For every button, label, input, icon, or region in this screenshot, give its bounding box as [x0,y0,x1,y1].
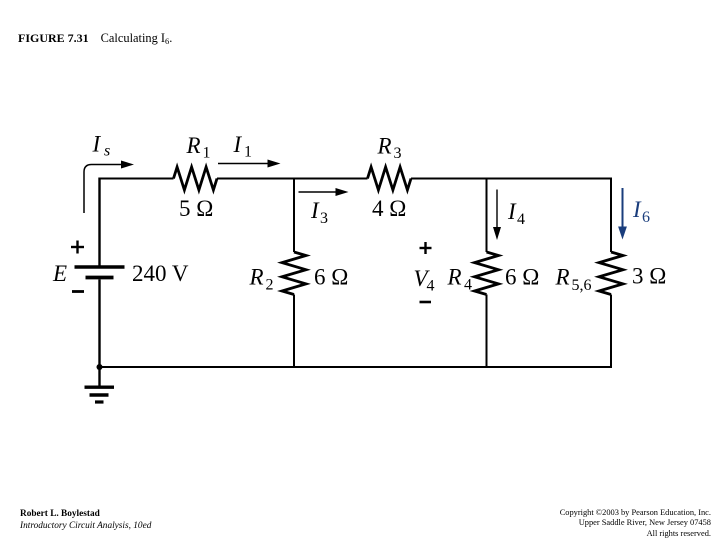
svg-text:6 Ω: 6 Ω [314,265,348,290]
svg-text:6: 6 [642,209,650,226]
footer right [560,508,711,539]
battery minus sign [72,290,84,293]
wire: right vertical top (R5,6 branch) [610,178,612,253]
svg-text:R: R [249,265,264,290]
resistor R5,6 [599,252,623,295]
current arrow I1 [218,163,268,165]
svg-text:4: 4 [517,211,525,228]
svg-text:R: R [555,265,570,290]
current arrow I4 [496,190,498,229]
svg-text:I: I [233,132,243,157]
svg-text:3: 3 [320,210,328,227]
footer left [20,508,151,533]
battery E long plate [75,265,125,269]
svg-text:R: R [377,134,392,159]
wire: right vertical bottom [610,295,612,369]
svg-text:I: I [92,132,102,157]
svg-text:I: I [632,197,642,222]
current arrow I3 [299,191,337,193]
svg-text:4: 4 [464,277,472,294]
wire: R2 branch bottom [293,295,295,369]
resistor R2 [282,252,306,295]
resistor R4 [475,252,499,295]
wire: R4 branch top [486,178,488,253]
current arrow Is [84,165,122,214]
svg-text:R: R [186,133,201,158]
wire: bottom horizontal [100,366,613,368]
svg-text:1: 1 [244,144,252,161]
svg-text:3 Ω: 3 Ω [632,264,666,289]
wire: top middle segment [217,178,368,180]
battery plus sign [71,246,84,248]
V4 plus sign [420,247,432,249]
svg-text:R: R [447,265,462,290]
svg-text:I: I [507,199,517,224]
svg-text:6 Ω: 6 Ω [505,265,539,290]
title caption [18,31,172,46]
wire: R2 branch top [293,178,295,253]
svg-text:240 V: 240 V [132,261,189,286]
wire: ground stub [98,367,100,386]
ground [85,386,115,389]
svg-text:5,6: 5,6 [572,277,592,294]
wire: R4 branch bottom [486,295,488,369]
svg-text:E: E [52,261,67,286]
svg-text:3: 3 [394,145,402,162]
svg-text:4 Ω: 4 Ω [372,196,406,221]
resistor R1 [174,167,218,190]
svg-text:s: s [104,143,110,160]
V4 minus sign [420,301,432,304]
wire: left vertical upper (battery top lead) [98,178,100,266]
junction node (battery / ground) [97,364,103,370]
resistor R3 [368,167,412,190]
current arrow I6 (blue) [622,188,624,227]
wire: top left segment [100,178,174,180]
svg-text:5 Ω: 5 Ω [179,196,213,221]
svg-text:2: 2 [266,277,274,294]
svg-text:I: I [310,198,320,223]
svg-text:4: 4 [427,278,435,295]
battery E short plate [86,276,114,280]
wire: left vertical lower (battery bottom lead) [98,280,100,368]
svg-text:1: 1 [203,145,211,162]
wire: top right segment [411,178,612,180]
